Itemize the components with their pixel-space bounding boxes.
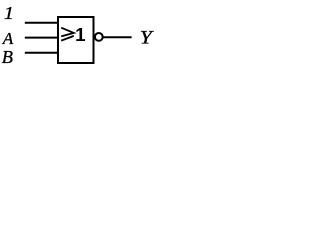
svg-text:A: A (2, 29, 14, 48)
or-gate U1 body (58, 17, 94, 63)
or-gate qualifying symbol >=1 (61, 28, 74, 41)
wire input B (25, 52, 59, 54)
svg-text:1: 1 (75, 24, 85, 45)
svg-text:1: 1 (4, 4, 14, 24)
svg-text:Y: Y (140, 28, 155, 48)
output inversion bubble (95, 33, 103, 41)
wire input A (25, 37, 59, 39)
svg-text:B: B (2, 47, 13, 67)
wire output (104, 36, 132, 38)
wire input 1 (25, 22, 59, 24)
